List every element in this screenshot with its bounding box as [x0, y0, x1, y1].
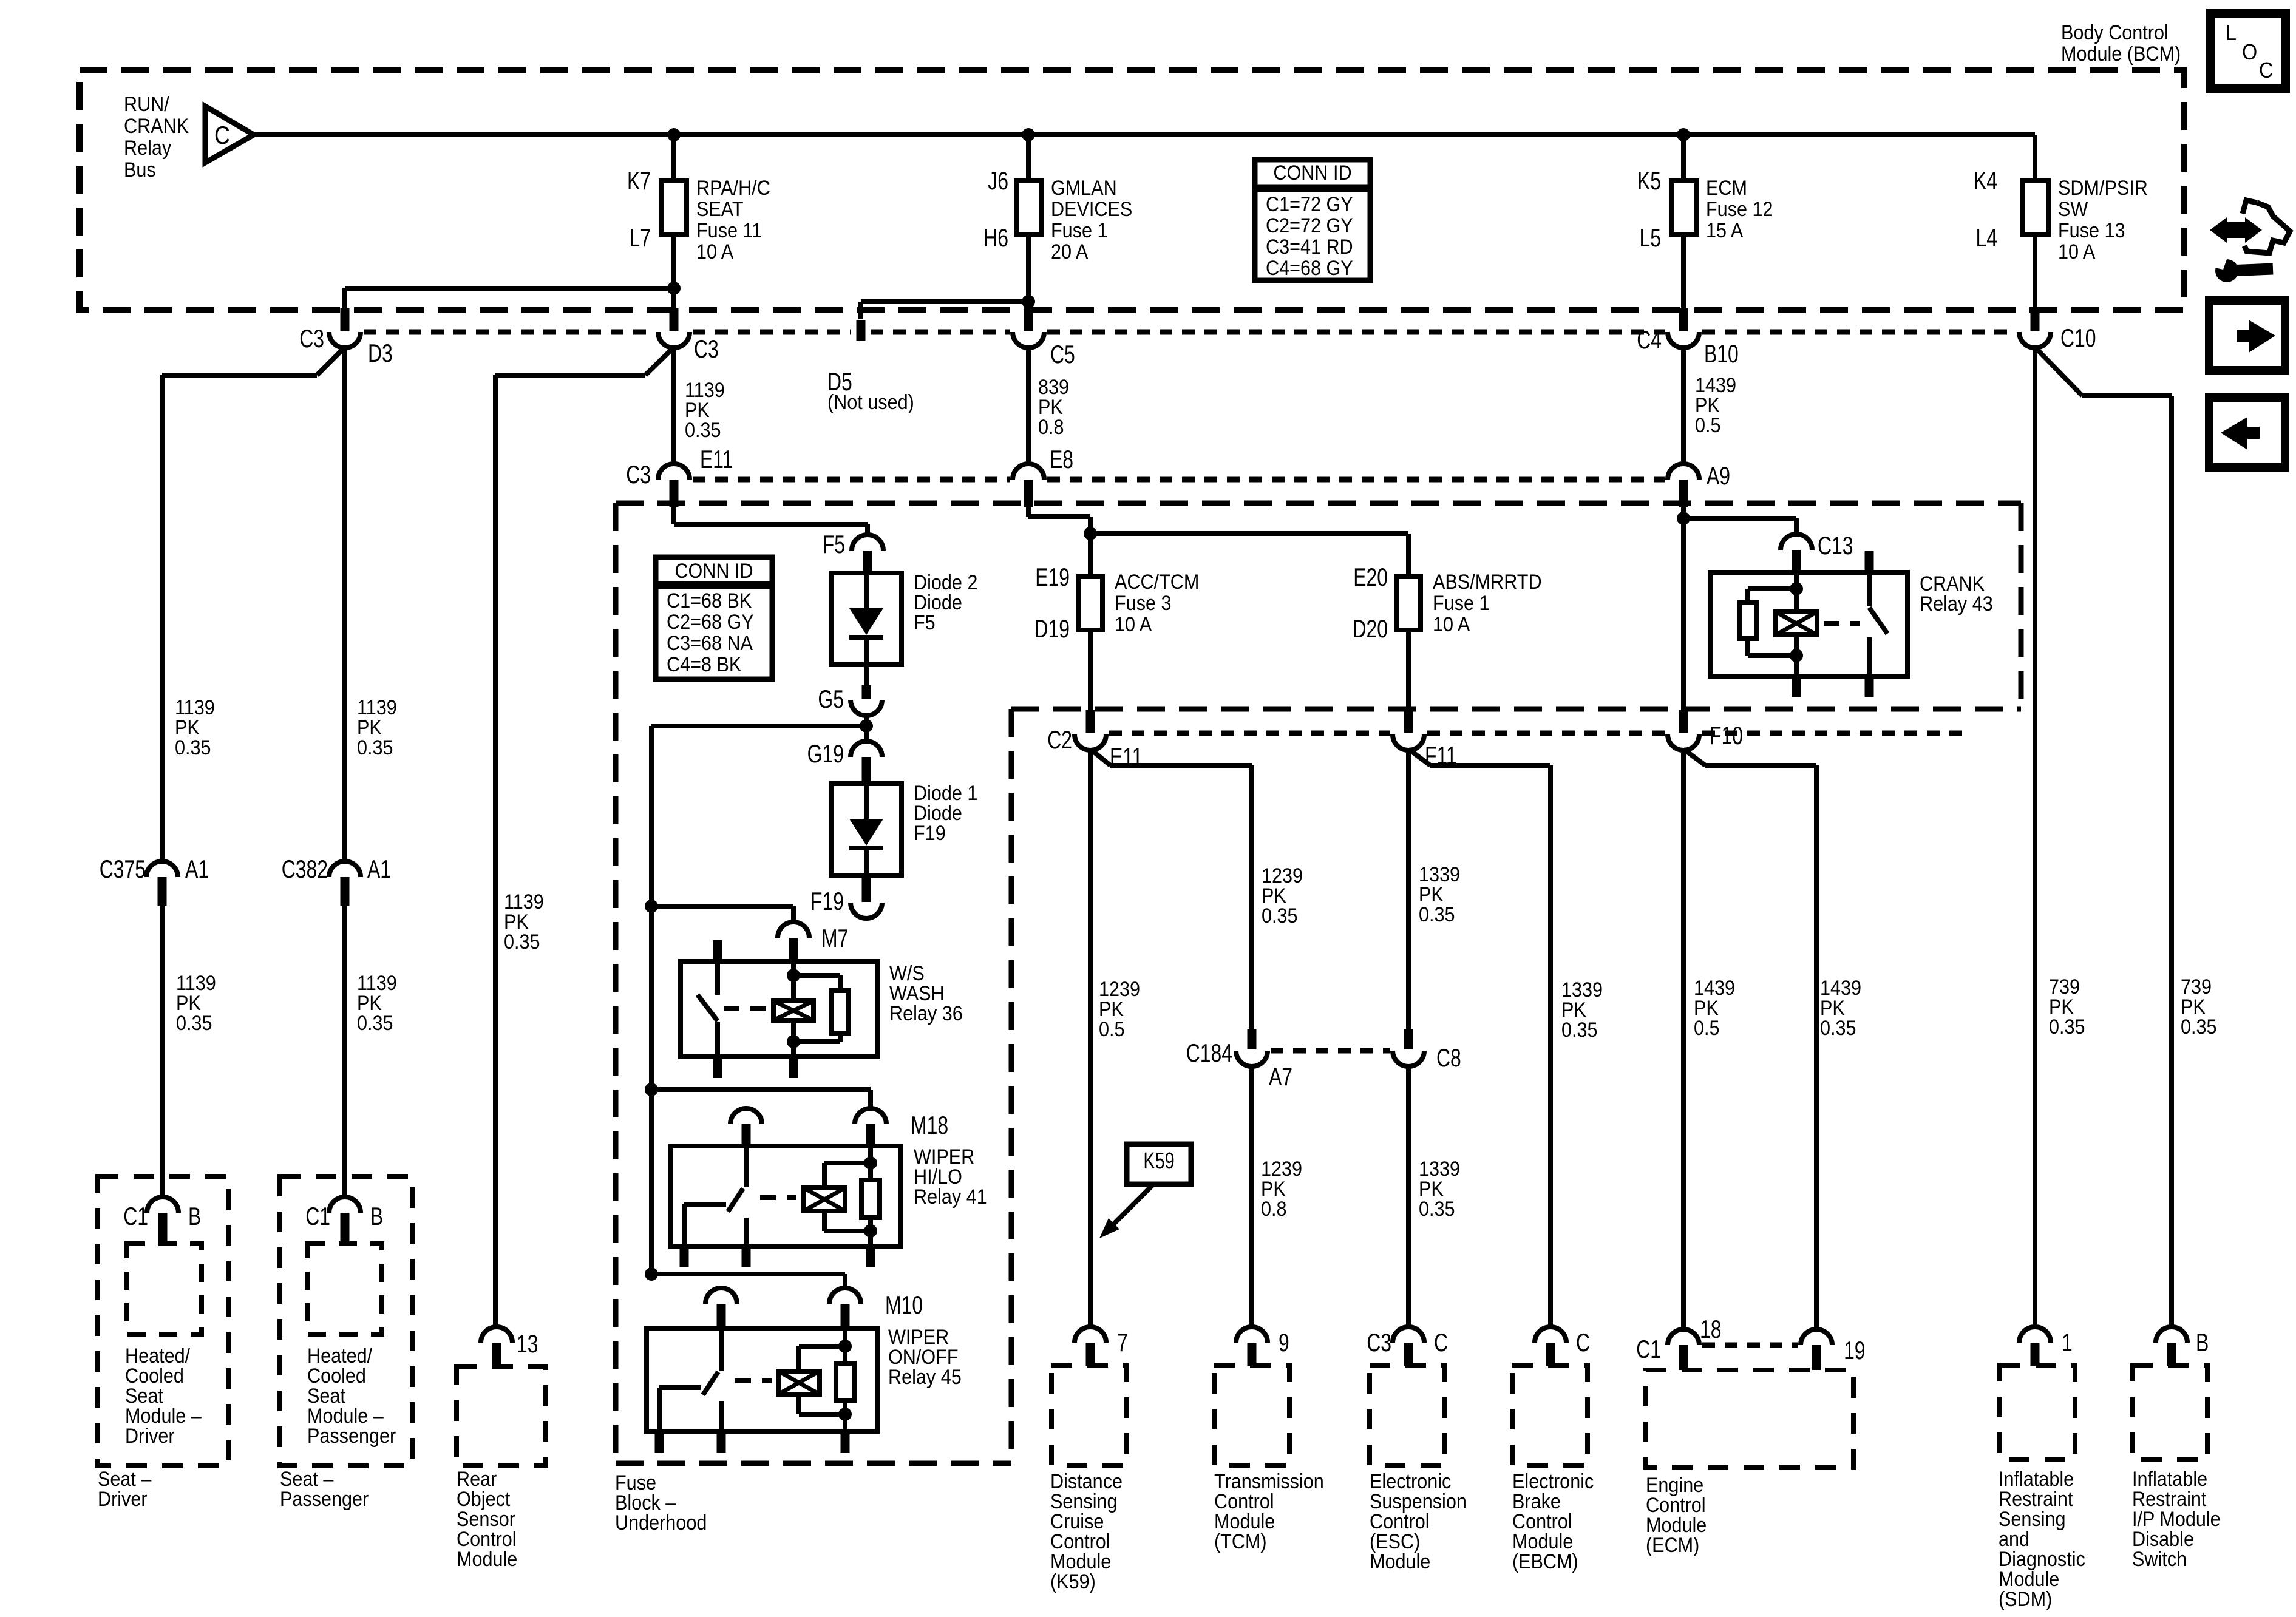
wire: C5 to E8 — [1026, 347, 1031, 465]
relay 43 switch — [1865, 551, 1874, 572]
bus source triangle C — [205, 106, 254, 163]
heated/cooled seat module driver box — [98, 1176, 228, 1466]
connector E8 fuse block — [1013, 464, 1044, 480]
K59 callout box with arrow — [1127, 1144, 1191, 1184]
relay 41 switch — [744, 1146, 749, 1187]
heated/cooled seat module passenger box — [280, 1176, 412, 1466]
relay 41 coil circuit — [868, 1146, 873, 1180]
svg-text:A7: A7 — [1269, 1062, 1292, 1091]
svg-text:J6: J6 — [988, 166, 1008, 195]
fuse block top connector row line — [693, 477, 1010, 483]
distance sensing cruise control module box — [1051, 1365, 1127, 1465]
svg-text:O: O — [2242, 40, 2257, 64]
wire: fuse E20 to F11 — [1406, 630, 1411, 710]
svg-text:C: C — [1576, 1328, 1590, 1357]
resistor in relay 43 — [1739, 602, 1757, 639]
relay 43 coil circuit — [1794, 572, 1799, 612]
svg-text:C3=41 RD: C3=41 RD — [1266, 236, 1353, 259]
relay 45 coil circuit — [843, 1328, 847, 1363]
connector F5 diode 2 — [852, 535, 883, 551]
svg-text:C1: C1 — [123, 1202, 148, 1230]
fuse E20/D20 ABS/MRRTD Fuse 1 10A — [1396, 577, 1421, 630]
svg-text:RUN/: RUN/ — [124, 93, 169, 116]
svg-text:(TCM): (TCM) — [1214, 1530, 1267, 1553]
svg-text:C: C — [214, 121, 230, 149]
svg-text:C3: C3 — [626, 460, 651, 489]
connector C3/C ESC module — [1393, 1327, 1424, 1343]
wire: C8 to ESC module — [1406, 1065, 1411, 1328]
svg-text:9: 9 — [1279, 1328, 1289, 1357]
svg-text:C4=68 GY: C4=68 GY — [1266, 257, 1353, 280]
connector C184/A7 — [1248, 1029, 1257, 1049]
svg-text:0.35: 0.35 — [685, 419, 721, 442]
wire: C10 jog to disable switch — [2035, 347, 2082, 396]
svg-text:C2=68 GY: C2=68 GY — [667, 611, 754, 634]
connector pin 9 TCM — [1236, 1327, 1268, 1343]
svg-text:A1: A1 — [367, 855, 391, 883]
svg-text:0.35: 0.35 — [1820, 1017, 1856, 1040]
svg-text:(K59): (K59) — [1050, 1570, 1096, 1593]
connector pin 7 cruise module — [1075, 1327, 1106, 1343]
wire: C2 straight to cruise module — [1088, 749, 1093, 1328]
icon: double arrow with body outline and wrench — [2210, 217, 2227, 243]
fuse E19/D19 ACC/TCM Fuse 3 10A — [1078, 577, 1102, 630]
wire: bus to fuse J6 — [1026, 135, 1031, 181]
solenoid coil in relay 43 — [1776, 612, 1817, 635]
svg-text:C2=72 GY: C2=72 GY — [1266, 214, 1353, 237]
svg-text:Body Control: Body Control — [2061, 21, 2169, 44]
fuse K4/L4 SDM/PSIR SW Fuse 13 10A — [2023, 181, 2048, 234]
svg-text:Relay: Relay — [124, 137, 172, 160]
svg-text:CONN ID: CONN ID — [1273, 161, 1351, 185]
svg-text:10 A: 10 A — [1115, 613, 1152, 636]
connector C3/D3 (seat feed) — [341, 308, 350, 331]
wire: fuse K7 to connector C3 — [671, 234, 676, 309]
wire: C375 to seat module driver — [160, 906, 165, 1198]
svg-text:A9: A9 — [1707, 461, 1730, 490]
diode D2 (Diode 2 F5) — [831, 573, 902, 665]
wire: fuse block internal rail to relays — [651, 724, 866, 728]
solenoid coil in relay 41 — [804, 1188, 845, 1211]
diode D1 (Diode 1 F19) — [831, 784, 902, 875]
electronic brake control module box — [1512, 1365, 1588, 1465]
svg-text:Fuse 3: Fuse 3 — [1115, 592, 1172, 615]
wire: rail branch to relay 41 coil M18 — [645, 1083, 658, 1096]
svg-text:0.35: 0.35 — [357, 736, 393, 759]
LOC legend box top-right — [2210, 13, 2286, 89]
connector F11 (suspension feed) — [1404, 710, 1413, 733]
wire: D3 straight to seat passenger column — [342, 347, 347, 863]
connector pin 13 rear object sensor — [481, 1327, 512, 1343]
svg-text:Relay 45: Relay 45 — [888, 1366, 962, 1389]
svg-text:F5: F5 — [823, 530, 845, 558]
svg-text:C1=72 GY: C1=72 GY — [1266, 193, 1353, 216]
connector G19 — [851, 741, 882, 757]
wire: rail branch to relay 45 coil M10 — [645, 1267, 658, 1281]
resistor in relay 41 — [861, 1180, 880, 1218]
svg-text:C375: C375 — [100, 855, 146, 883]
svg-text:ECM: ECM — [1706, 177, 1747, 200]
svg-text:C382: C382 — [282, 855, 328, 883]
svg-text:0.35: 0.35 — [1262, 904, 1298, 927]
svg-text:(SDM): (SDM) — [1999, 1588, 2052, 1611]
wire: C10 straight to SDM — [2033, 347, 2037, 1328]
relay 43 actuator dashes — [1824, 621, 1860, 626]
svg-text:G5: G5 — [818, 685, 844, 713]
svg-text:M18: M18 — [911, 1111, 948, 1139]
svg-text:C184: C184 — [1186, 1039, 1232, 1067]
inline connector row C184 to C8 — [1271, 1048, 1390, 1054]
svg-text:E19: E19 — [1035, 563, 1070, 591]
svg-text:Relay 43: Relay 43 — [1920, 592, 1993, 615]
solenoid coil in relay 45 — [778, 1371, 820, 1394]
svg-text:10 A: 10 A — [2058, 240, 2096, 263]
svg-text:Switch: Switch — [2132, 1548, 2187, 1571]
svg-text:Underhood: Underhood — [615, 1511, 707, 1534]
svg-text:D20: D20 — [1352, 614, 1388, 643]
svg-text:C5: C5 — [1050, 340, 1075, 368]
connector C375/A1 — [146, 861, 178, 877]
wire: C3 jog to rear object sensor column — [645, 347, 674, 375]
svg-text:K59: K59 — [1143, 1148, 1174, 1174]
svg-text:Module (BCM): Module (BCM) — [2061, 42, 2181, 66]
svg-text:F10: F10 — [1710, 721, 1743, 750]
svg-text:0.5: 0.5 — [1695, 414, 1721, 437]
svg-text:18: 18 — [1700, 1315, 1722, 1343]
svg-text:SEAT: SEAT — [696, 198, 744, 221]
icon: forward arrow box — [2209, 300, 2285, 370]
svg-text:CONN ID: CONN ID — [674, 560, 753, 583]
svg-text:C4: C4 — [1637, 325, 1662, 354]
fuse K7/L7 RPA/H/C SEAT Fuse 11 10A — [661, 181, 687, 234]
svg-text:(ECM): (ECM) — [1646, 1534, 1699, 1557]
wire: bus to fuse K5 — [1681, 135, 1686, 181]
svg-text:Driver: Driver — [98, 1488, 148, 1511]
svg-text:Relay 41: Relay 41 — [914, 1185, 987, 1209]
svg-text:1: 1 — [2062, 1328, 2073, 1357]
svg-text:13: 13 — [517, 1329, 538, 1358]
svg-text:L: L — [2226, 21, 2237, 45]
svg-text:0.35: 0.35 — [175, 736, 211, 759]
svg-text:C8: C8 — [1436, 1043, 1461, 1072]
wire: F11 straight to C8 — [1406, 749, 1411, 1029]
svg-text:C1=68 BK: C1=68 BK — [667, 589, 752, 612]
svg-text:0.35: 0.35 — [504, 931, 540, 954]
inflatable restraint IP module disable switch box — [2132, 1365, 2207, 1459]
wire: C3 to E11 — [671, 347, 676, 465]
wire: RUN/CRANK relay bus — [254, 132, 2035, 137]
svg-text:E20: E20 — [1353, 563, 1388, 591]
relay 45 actuator dashes — [735, 1378, 772, 1383]
wire: fuse E19 to C2 — [1088, 630, 1093, 710]
svg-text:Fuse 1: Fuse 1 — [1051, 219, 1108, 242]
relay K43 CRANK Relay 43 box — [1710, 572, 1907, 676]
wire: rail branch to relay 36 coil M7 — [645, 900, 658, 913]
svg-text:L4: L4 — [1975, 223, 1997, 252]
connector pin 1 SDM — [2019, 1327, 2051, 1343]
svg-text:C3=68 NA: C3=68 NA — [667, 632, 753, 655]
svg-text:M7: M7 — [821, 924, 848, 952]
wire: fuse J6 to connector C5 — [1026, 234, 1031, 309]
connector M18 — [855, 1108, 886, 1124]
svg-text:C4=8 BK: C4=8 BK — [667, 653, 742, 676]
svg-text:0.35: 0.35 — [1419, 1198, 1455, 1221]
svg-text:Passenger: Passenger — [280, 1488, 369, 1511]
connector C1/B seat driver — [147, 1197, 178, 1213]
svg-text:Fuse 13: Fuse 13 — [2058, 219, 2125, 242]
svg-text:0.8: 0.8 — [1038, 416, 1064, 439]
wire: A7 to TCM — [1249, 1065, 1254, 1328]
svg-text:C13: C13 — [1818, 531, 1853, 560]
wire: F10 jog to ECM pin 19 — [1683, 749, 1705, 765]
svg-text:7: 7 — [1117, 1328, 1128, 1357]
svg-text:20 A: 20 A — [1051, 240, 1089, 263]
svg-text:D19: D19 — [1034, 614, 1070, 643]
svg-text:Driver: Driver — [125, 1425, 175, 1448]
connector C13 — [1781, 534, 1812, 550]
wire: E8 to fuse E19 and E20 — [1026, 507, 1031, 517]
svg-text:L5: L5 — [1639, 223, 1661, 252]
relay 41 actuator dashes — [760, 1195, 796, 1200]
node: junction below K7 — [667, 282, 681, 295]
svg-text:0.5: 0.5 — [1099, 1018, 1125, 1041]
wire: A9 into fuse block to C13 — [1681, 507, 1686, 710]
connector C3 (fuse block feed) — [670, 308, 679, 331]
relay 45 switch — [719, 1328, 724, 1371]
node: junction below J6 — [1022, 295, 1035, 308]
rear object sensor control module box — [457, 1367, 546, 1466]
connector C3/E11 fuse block — [658, 464, 690, 480]
resistor in relay 45 — [836, 1363, 854, 1401]
connector C8 — [1404, 1029, 1413, 1049]
svg-text:SDM/PSIR: SDM/PSIR — [2058, 177, 2148, 200]
svg-text:RPA/H/C: RPA/H/C — [696, 177, 770, 200]
wire: fuse K4 to connector C10 — [2033, 234, 2037, 309]
icon: backward arrow box — [2209, 398, 2285, 467]
wire: F10 straight to ECM pin 18 — [1681, 749, 1686, 1331]
relay 36 switch — [713, 940, 722, 961]
fuse block bottom connector row line — [1109, 731, 1390, 736]
svg-text:Module: Module — [457, 1548, 517, 1571]
svg-text:C1: C1 — [305, 1202, 330, 1230]
svg-text:Relay 36: Relay 36 — [889, 1002, 963, 1025]
svg-text:0.8: 0.8 — [1261, 1198, 1287, 1221]
seat driver inner connector box — [127, 1244, 202, 1334]
electronic suspension control module box — [1370, 1365, 1445, 1465]
svg-text:10 A: 10 A — [1433, 613, 1470, 636]
wire: BCM internal branch to D5 — [861, 299, 1028, 304]
svg-text:E8: E8 — [1050, 445, 1073, 473]
svg-text:ACC/TCM: ACC/TCM — [1115, 571, 1199, 594]
connector pin B disable switch — [2156, 1327, 2187, 1343]
svg-text:A1: A1 — [185, 855, 209, 883]
relay 45 switch stub connector — [705, 1288, 737, 1304]
svg-text:10 A: 10 A — [696, 240, 734, 263]
wire: G5 to G19 with branch node — [864, 714, 869, 742]
svg-text:0.35: 0.35 — [1419, 903, 1455, 926]
svg-text:0.35: 0.35 — [2181, 1015, 2217, 1039]
svg-text:19: 19 — [1844, 1336, 1866, 1364]
wire: C4/B10 to A9 — [1681, 347, 1686, 465]
svg-text:0.5: 0.5 — [1694, 1017, 1720, 1040]
resistor in relay 36 — [832, 991, 849, 1033]
svg-text:Module: Module — [1370, 1550, 1430, 1573]
svg-text:H6: H6 — [983, 223, 1008, 252]
node: bus junction J6 — [1022, 128, 1035, 141]
svg-text:DEVICES: DEVICES — [1051, 198, 1132, 221]
svg-text:Bus: Bus — [124, 158, 156, 181]
node: bus junction K7 — [667, 128, 681, 141]
relay 36 coil circuit — [791, 961, 796, 1001]
connector C1/B seat passenger — [329, 1197, 361, 1213]
node: bus junction K5 — [1677, 128, 1690, 141]
connector C10 (SDM feed) — [2031, 308, 2040, 331]
CONN ID table (BCM connectors) — [1255, 160, 1370, 280]
svg-text:GMLAN: GMLAN — [1051, 177, 1117, 200]
connector C2/E11 (cruise feed) — [1086, 710, 1095, 733]
svg-text:M10: M10 — [885, 1290, 923, 1319]
svg-text:0.35: 0.35 — [2049, 1015, 2085, 1039]
svg-text:E11: E11 — [700, 445, 733, 473]
connector row line below BCM — [364, 330, 655, 335]
svg-text:C: C — [1434, 1328, 1448, 1357]
Body Control Module (BCM) dashed box — [80, 70, 2184, 310]
wire: D3 jog to seat driver column — [317, 347, 345, 375]
CONN ID table (fuse block connectors) — [656, 557, 772, 679]
svg-text:C1: C1 — [1636, 1335, 1661, 1363]
svg-text:C3: C3 — [1367, 1328, 1391, 1357]
svg-text:K4: K4 — [1974, 166, 1997, 195]
fuse K5/L5 ECM Fuse 12 15A — [1671, 181, 1697, 234]
svg-text:CRANK: CRANK — [124, 115, 189, 138]
svg-text:ABS/MRRTD: ABS/MRRTD — [1433, 571, 1542, 594]
relay 41 switch stub connector — [730, 1108, 762, 1124]
svg-text:D3: D3 — [368, 339, 393, 367]
ECM connector face dotted line — [1702, 1343, 1798, 1348]
svg-text:0.35: 0.35 — [1561, 1019, 1598, 1042]
solenoid coil in relay 36 — [773, 1001, 813, 1020]
svg-text:C10: C10 — [2060, 324, 2096, 352]
connector G5 — [864, 665, 869, 685]
svg-text:Fuse 1: Fuse 1 — [1433, 592, 1490, 615]
svg-text:(EBCM): (EBCM) — [1512, 1550, 1578, 1573]
svg-text:(Not used): (Not used) — [827, 391, 914, 414]
svg-text:B10: B10 — [1704, 339, 1739, 368]
svg-text:F5: F5 — [914, 611, 936, 634]
svg-text:B: B — [188, 1202, 201, 1230]
svg-text:15 A: 15 A — [1706, 219, 1744, 242]
connector C382/A1 — [329, 861, 361, 877]
wire: C382 to seat module passenger — [342, 906, 347, 1198]
wire: fuse K5 to connector C4 — [1681, 234, 1686, 309]
svg-text:C3: C3 — [299, 324, 324, 353]
wire: E11 into fuse block to F5 — [671, 507, 676, 524]
connector M10 — [829, 1288, 861, 1304]
svg-text:B: B — [2196, 1328, 2209, 1357]
svg-text:L7: L7 — [629, 223, 651, 252]
relay K45 WIPER ON/OFF Relay 45 box — [647, 1328, 877, 1432]
connector C1 pin 18 ECM — [1668, 1329, 1699, 1345]
connector M7 — [778, 922, 809, 938]
pin D5 stub (Not used) — [857, 320, 866, 341]
fuse J6/H6 GMLAN DEVICES Fuse 1 20A — [1016, 181, 1042, 234]
svg-text:0.35: 0.35 — [176, 1012, 212, 1035]
wire: F11 jog to EBCM column — [1408, 749, 1430, 765]
svg-text:F19: F19 — [914, 822, 946, 845]
connector pin 19 ECM — [1801, 1329, 1832, 1345]
connector C5 (GMLAN feed) — [1024, 308, 1033, 331]
svg-text:K5: K5 — [1637, 166, 1661, 195]
wire: BCM internal branch to D3 — [345, 286, 674, 291]
engine control module box — [1646, 1370, 1853, 1467]
relay K36 W/S WASH Relay 36 box — [681, 961, 878, 1057]
seat passenger inner connector box — [307, 1244, 382, 1334]
svg-text:SW: SW — [2058, 198, 2088, 221]
wire: C2 jog to TCM column — [1090, 749, 1110, 765]
inflatable restraint SDM box — [2000, 1365, 2075, 1459]
svg-text:Passenger: Passenger — [307, 1425, 396, 1448]
transmission control module box — [1214, 1365, 1289, 1465]
wire: bus corner to fuse K4 — [2033, 135, 2037, 181]
connector F19 — [862, 875, 871, 902]
svg-text:K7: K7 — [627, 166, 651, 195]
svg-text:Fuse 11: Fuse 11 — [696, 219, 762, 242]
wire: bus to fuse K7 — [671, 135, 676, 181]
svg-text:C: C — [2259, 58, 2273, 83]
connector F10 (ECM feed) — [1679, 710, 1688, 733]
svg-text:C2: C2 — [1047, 725, 1072, 754]
connector A9 fuse block — [1668, 464, 1699, 480]
svg-text:G19: G19 — [807, 739, 844, 768]
svg-text:Fuse 12: Fuse 12 — [1706, 198, 1773, 221]
svg-text:B: B — [370, 1202, 383, 1230]
relay 36 actuator dashes — [724, 1006, 769, 1011]
fuse block underhood dashed outline — [616, 501, 2021, 506]
connector C4/B10 (ECM feed) — [1679, 308, 1688, 331]
svg-text:F19: F19 — [810, 887, 844, 915]
relay K41 WIPER HI/LO Relay 41 box — [670, 1146, 901, 1246]
svg-text:C3: C3 — [694, 334, 719, 363]
connector C EBCM — [1535, 1327, 1566, 1343]
svg-text:0.35: 0.35 — [357, 1012, 393, 1035]
